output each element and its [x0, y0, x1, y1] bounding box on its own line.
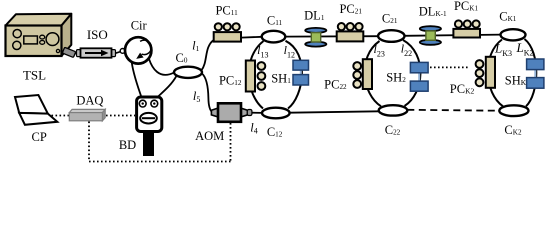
dashed fiber C22 to CK2	[407, 109, 499, 112]
ring1 right arc	[286, 41, 302, 109]
isolator ISO	[77, 48, 116, 57]
wire circulator port3 to BD left input	[132, 62, 143, 99]
dotted wire DAQ to BD	[106, 115, 135, 117]
TSL tunable laser source box	[6, 14, 72, 56]
delay line DL1 fiber spool	[305, 28, 326, 47]
coupler C11	[262, 31, 286, 43]
wire circulator port2 to coupler C0	[149, 59, 174, 75]
polarization controller PCK1	[453, 20, 480, 37]
delay line DLK-1 fiber spool	[420, 26, 441, 45]
wire C11 to DL1 to PC21 to C21	[285, 35, 378, 37]
dotted wire DAQ down	[88, 122, 90, 162]
ring2 left arc	[365, 41, 381, 106]
ring1 left arc	[249, 41, 264, 109]
svg-text:DAQ: DAQ	[76, 93, 103, 107]
fiber stretcher SH1 blue segments	[293, 60, 309, 85]
dotted continuation SH2 to PCK2	[430, 66, 470, 68]
balanced detector BD	[137, 97, 162, 156]
acousto-optic modulator AOM	[211, 103, 247, 122]
coupler C0	[174, 67, 202, 78]
connector at circulator input	[120, 49, 125, 54]
svg-text:ISO: ISO	[87, 27, 108, 42]
svg-text:AOM: AOM	[195, 129, 224, 143]
wire TSL to ISO	[62, 53, 78, 55]
ring2 right arc	[403, 40, 420, 106]
DAQ data acquisition card	[69, 109, 105, 120]
wire C12 to C22	[290, 111, 379, 112]
fiber stretcher SHK blue segments	[527, 59, 544, 88]
coupler C22	[379, 105, 408, 115]
ringK right arc	[525, 39, 537, 106]
svg-text:BD: BD	[119, 138, 136, 152]
wire C0 to AOM (l5)	[202, 74, 212, 113]
circulator Cir	[125, 37, 151, 63]
svg-text:CP: CP	[32, 130, 47, 144]
coupler CK2	[499, 105, 528, 116]
fiber stretcher SH2 blue segments	[410, 62, 428, 91]
svg-text:TSL: TSL	[23, 68, 46, 83]
polarization controller PC22	[353, 59, 372, 89]
dotted wire AOM down	[230, 123, 232, 162]
dotted wire CP to DAQ	[52, 115, 70, 117]
ringK left arc	[488, 40, 503, 107]
wire C21 to DLK-1 to PCK1 to CK1	[405, 35, 502, 36]
coupler C12	[262, 108, 290, 119]
dotted wire bottom horizontal	[89, 161, 231, 163]
wire PC11 to C11	[241, 36, 262, 39]
wire C0 to PC11 (l1)	[202, 40, 214, 70]
wire C0 lower-left to BD right input	[155, 76, 177, 100]
polarization controller PC11	[214, 23, 241, 41]
svg-text:Cir: Cir	[131, 19, 148, 33]
coupler CK1	[501, 29, 526, 40]
polarization controller PC12	[246, 61, 265, 92]
polarization controller PC21	[337, 23, 364, 41]
connector after AOM	[247, 110, 252, 116]
polarization controller PCK2	[476, 57, 495, 88]
wire ISO to circulator	[116, 52, 122, 54]
coupler C21	[378, 30, 404, 42]
fiber connector at TSL output	[62, 47, 75, 57]
wire AOM to C12 (l4)	[252, 112, 262, 114]
computer CP laptop	[15, 95, 57, 125]
